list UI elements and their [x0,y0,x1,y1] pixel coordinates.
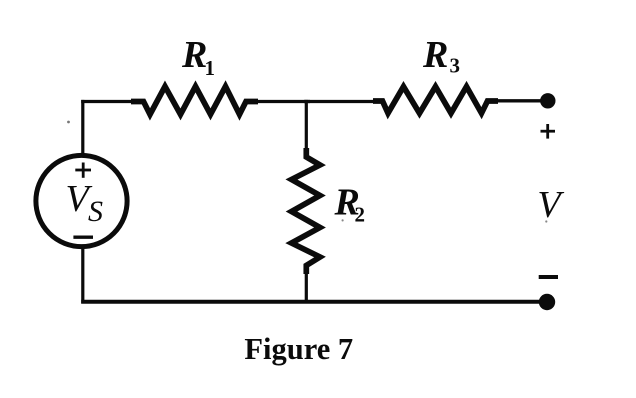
speck [342,219,344,221]
wire: top rail left segment [81,100,135,103]
speck [67,121,70,124]
wire: node A to R3 [304,100,378,103]
terminal dot top-right [540,93,555,108]
wire: source bottom to bottom rail [81,247,84,303]
wire: R1 to node A [254,100,310,103]
label + (inside source) [75,163,91,178]
resistor R3 [373,87,498,114]
svg-text:Figure 7: Figure 7 [244,332,353,366]
svg-text:1: 1 [205,56,216,80]
svg-text:3: 3 [450,53,461,77]
wire: R3 to output terminal [494,99,546,102]
wire: source top to top rail [81,100,84,155]
svg-text:V: V [537,184,564,226]
speck [545,220,547,222]
wire: node A down to R2 [305,100,308,152]
terminal dot bottom-right [539,294,555,310]
resistor R1 [131,86,258,114]
wire: R2 down to bottom rail [305,270,308,303]
svg-text:S: S [88,195,103,228]
label - (inside source) [73,235,93,238]
svg-text:R: R [422,34,448,76]
voltage source Vs [36,155,127,246]
resistor R2 [292,148,321,274]
label + (output) [541,124,556,139]
wire: bottom rail [81,300,546,304]
svg-text:2: 2 [355,202,366,226]
label - (output) [539,275,558,279]
svg-text:R: R [181,34,207,76]
